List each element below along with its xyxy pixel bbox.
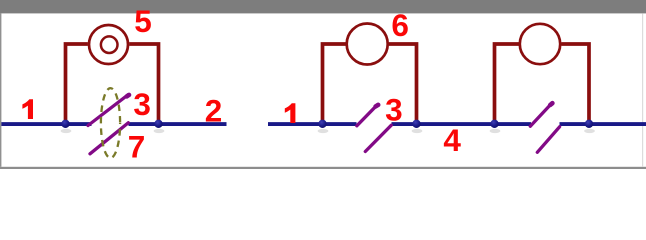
node shadow under node 1 left: [61, 129, 72, 133]
svg-text:4: 4: [443, 122, 461, 158]
meter branch middle circuit: left lead: [323, 44, 347, 122]
meter U1 outer circle (double-circle meter, label 5): [89, 25, 128, 64]
switch blade upper, left circuit: [88, 95, 128, 126]
meter U3 circle: [520, 24, 560, 64]
node 1 junction dot, middle circuit: [318, 120, 326, 128]
meter U1 inner circle: [101, 36, 118, 53]
switch blade tip knob, left circuit: [127, 95, 129, 97]
node 3 junction dot, middle circuit: [412, 120, 420, 128]
wire: left circuit, right segment (to label 2): [129, 122, 227, 126]
wire: middle circuit, left segment: [268, 122, 357, 126]
node shadow under right node of right circuit: [584, 129, 595, 133]
junction dot, right circuit right: [585, 120, 593, 128]
node 1 junction dot, left circuit: [61, 120, 69, 128]
node 3 junction dot, left circuit: [154, 120, 162, 128]
meter branch left circuit: left lead: [66, 44, 88, 122]
switch blade tip knob, middle circuit: [376, 105, 379, 107]
switch blade tip knob, right circuit: [550, 103, 552, 105]
node shadow under node 3 middle: [412, 129, 423, 133]
junction dot, right circuit left: [490, 120, 498, 128]
switch blade upper, middle circuit: [357, 105, 378, 126]
switch blade lower, middle circuit: [365, 125, 391, 151]
svg-text:7: 7: [128, 129, 146, 165]
svg-text:5: 5: [134, 3, 152, 39]
right faint border: [642, 13, 643, 166]
svg-text:3: 3: [385, 92, 403, 128]
meter branch left circuit: right lead: [129, 44, 158, 122]
left gray border: [0, 13, 1, 166]
node shadow under node 1 middle: [318, 129, 329, 133]
highlight ellipse (dashed, label 7): [101, 88, 120, 158]
meter branch right circuit: right lead: [561, 44, 589, 122]
switch blade lower, right circuit: [537, 127, 559, 153]
meter branch right circuit: left lead: [495, 44, 520, 122]
svg-text:3: 3: [133, 86, 151, 122]
wire: left circuit, left segment: [1, 122, 91, 126]
meter branch middle circuit: right lead: [389, 44, 417, 122]
bottom gray band: [0, 167, 646, 169]
switch blade upper, right circuit: [530, 103, 552, 127]
node shadow under node 3 left: [154, 129, 165, 133]
node shadow under left node of right circuit: [490, 129, 501, 133]
svg-text:2: 2: [205, 93, 223, 129]
wire: right circuit, right segment: [560, 122, 646, 126]
label 1 (middle circuit node 1): [285, 103, 296, 123]
svg-text:6: 6: [391, 7, 409, 43]
wire: middle-to-right segment (label 4): [392, 122, 532, 126]
label 1 (left circuit node 1): [22, 99, 33, 119]
meter U2 circle (label 6): [347, 24, 388, 65]
title bar (top gray band): [0, 0, 646, 13]
switch blade lower, left circuit: [90, 123, 128, 154]
